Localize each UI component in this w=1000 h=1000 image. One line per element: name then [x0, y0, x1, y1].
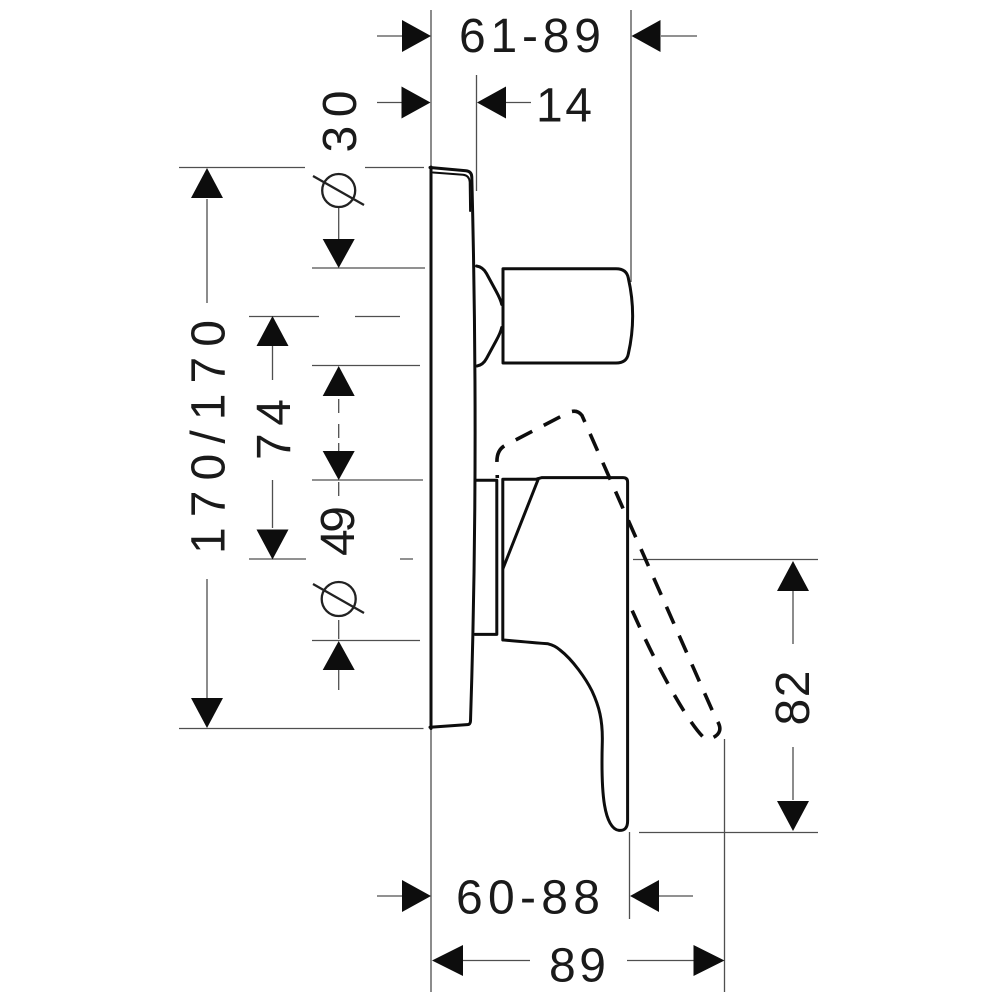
svg-text:60-88: 60-88	[456, 872, 600, 925]
svg-text:82: 82	[767, 671, 820, 726]
svg-text:61-89: 61-89	[459, 10, 601, 63]
svg-text:49: 49	[312, 506, 365, 556]
